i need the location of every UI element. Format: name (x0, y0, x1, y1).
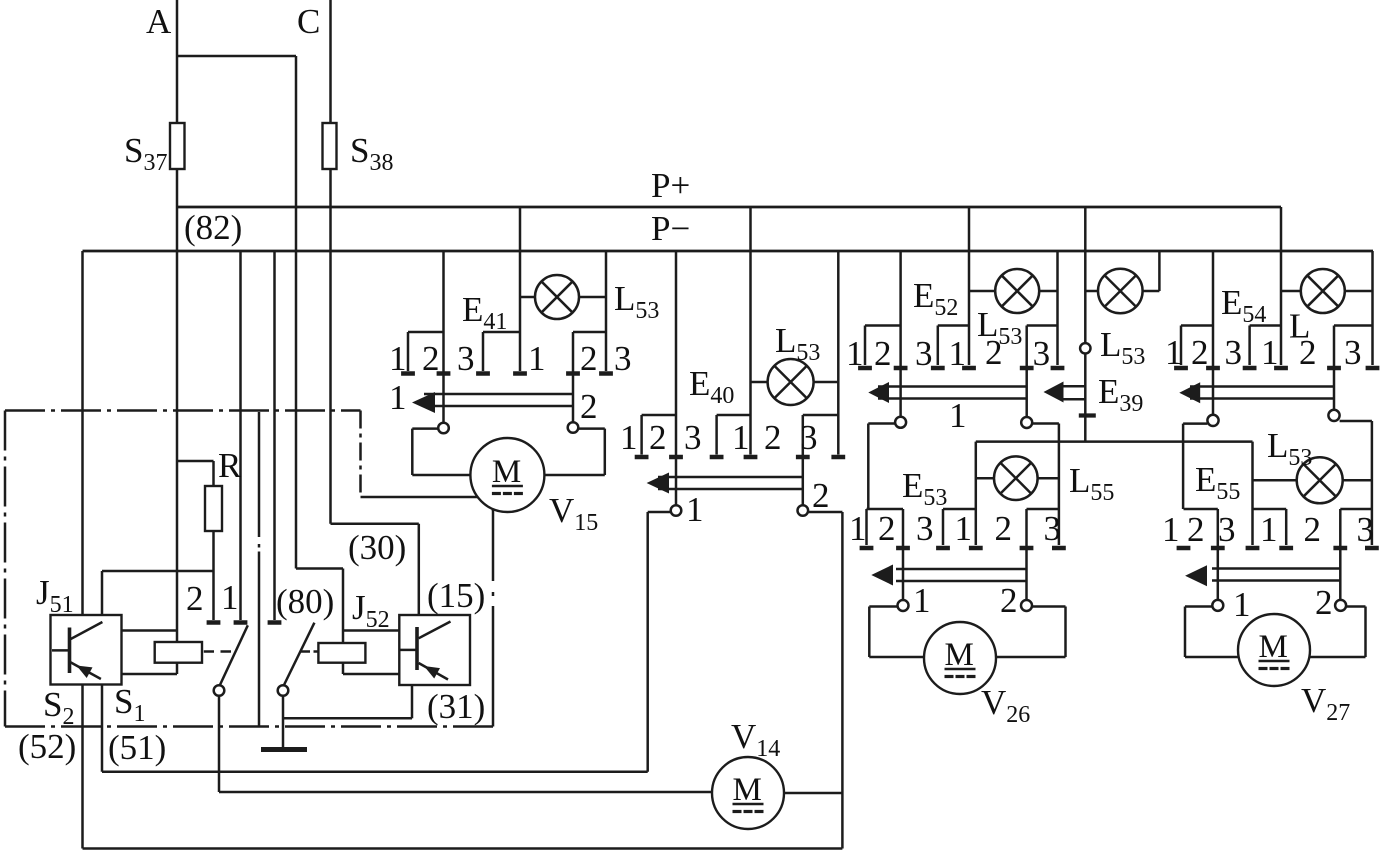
resistor R (205, 486, 222, 531)
lamp E41 right lead (579, 296, 606, 299)
svg-text:1: 1 (949, 334, 967, 373)
svg-text:(82): (82) (184, 208, 242, 247)
relay J51 coil feed wires (122, 629, 178, 632)
svg-text:2: 2 (1299, 333, 1317, 372)
svg-text:3: 3 (916, 509, 934, 548)
svg-text:2: 2 (580, 387, 598, 426)
svg-text:1: 1 (913, 581, 931, 620)
wire J52 emitter to ground wire (411, 685, 414, 718)
lamp L53 of E55 (1297, 457, 1343, 503)
E41 tick 1-right (513, 371, 527, 376)
E54 pivot 2 (1328, 410, 1339, 421)
enclosure boundary top dash-dot (5, 409, 361, 412)
wire E53 pivot1 to motor V26 (869, 605, 897, 608)
bottom rail (83, 847, 843, 850)
svg-text:A: A (146, 2, 172, 41)
svg-text:2: 2 (764, 418, 782, 457)
svg-text:3: 3 (915, 334, 933, 373)
svg-text:C: C (297, 2, 320, 41)
wire P- drop to E54 terminal 2-left (1212, 251, 1215, 415)
lamp L55 of E53 (994, 456, 1038, 500)
svg-text:3: 3 (1218, 510, 1236, 549)
wire E41 pivot2 to motor V15 (578, 427, 605, 430)
svg-text:2: 2 (995, 509, 1013, 548)
E53 lamp right lead (1038, 477, 1059, 480)
wire (80) contact drop from P- bus (273, 251, 276, 620)
fuse S38 (323, 123, 337, 169)
E40 lamp left lead (751, 381, 768, 384)
svg-text:2: 2 (1315, 583, 1333, 622)
wire J51 output to E40 pivot1 rail (101, 685, 104, 772)
E40 bracket 2-3 right (803, 414, 839, 417)
svg-text:2: 2 (186, 579, 204, 618)
wire junction rail down to E55 feed (1251, 442, 1254, 545)
wire E52 pivot1 down to E53 (868, 422, 895, 425)
relay J52 mechanical link dashes (300, 650, 310, 653)
svg-text:1: 1 (1162, 510, 1180, 549)
svg-text:2: 2 (1000, 581, 1018, 620)
E39 rocker bars (1063, 385, 1085, 388)
E41 tick 3-right (599, 371, 613, 376)
wire P- right end drop to E54 (1371, 251, 1374, 365)
E40 rocker arrow (647, 473, 669, 494)
svg-text:2: 2 (1304, 510, 1322, 549)
svg-text:1: 1 (1261, 333, 1279, 372)
enclosure boundary jog horizontal to motor V15 (361, 496, 479, 499)
switch S1 output wire down (218, 696, 221, 792)
wire P- drop to E52 terminal 2-left (899, 251, 902, 417)
wire E52 pivot2 down to junction rail (1032, 422, 1059, 425)
wire lamp L53 center to P- (1158, 251, 1161, 291)
lamp L53 of E52 (995, 269, 1039, 313)
wire E40 pivot1 down-left (648, 511, 671, 514)
wire P+ drop to E41 terminal 1 (519, 207, 522, 371)
transistor J52 emitter (419, 663, 448, 680)
relay J51 mechanical link dashes (204, 650, 214, 653)
E53 pivot 2 (1021, 600, 1032, 611)
E55 lamp left lead (1253, 479, 1297, 482)
wire E41 pivot1 to motor V15 (412, 427, 438, 430)
svg-text:1: 1 (1233, 585, 1251, 624)
svg-text:1: 1 (849, 509, 867, 548)
wire E54 pivot1 down to E55 (1183, 422, 1207, 425)
motor V15 bottom lead upper part (492, 510, 495, 512)
switch (80) pivot (278, 685, 289, 696)
transistor J52 base lead (401, 649, 417, 652)
svg-text:1: 1 (389, 339, 407, 378)
switch S1 blade (219, 625, 248, 687)
svg-text:(52): (52) (18, 727, 76, 766)
svg-text:2: 2 (985, 333, 1003, 372)
svg-text:2: 2 (874, 334, 892, 373)
svg-text:R: R (218, 446, 242, 485)
E54 bracket 2-3 right (1334, 324, 1373, 327)
motor V26 (924, 622, 996, 694)
ground symbol bar (261, 747, 307, 752)
E52 bracket 1-2 left (865, 324, 901, 327)
svg-text:1: 1 (955, 509, 973, 548)
E54 bracket 1-2 left (1181, 324, 1213, 327)
E41 bracket 2-3 right (573, 331, 606, 334)
svg-text:(80): (80) (276, 582, 334, 621)
svg-text:3: 3 (614, 339, 632, 378)
svg-text:(30): (30) (348, 528, 406, 567)
wire A feed vertical (176, 0, 179, 643)
svg-text:M: M (733, 772, 762, 808)
E54 lamp right lead (1345, 290, 1373, 293)
svg-text:(15): (15) (427, 576, 485, 615)
wire J51 collector to contact 2 tee (101, 571, 104, 615)
wire P+ drop center to E39 (1084, 207, 1087, 343)
relay J51 coil (155, 642, 202, 663)
wire P+ drop to E40 (749, 207, 752, 455)
wire S1 to motor V14 (219, 791, 712, 794)
E52 lamp left lead (969, 290, 995, 293)
wire (30) from C line to J52 (331, 523, 419, 526)
E55 lamp right lead (1343, 479, 1372, 482)
relay J52 coil top tee to box (343, 629, 399, 632)
transistor J51 emitter (70, 662, 101, 679)
svg-text:3: 3 (1044, 509, 1062, 548)
transistor J51 base lead (52, 649, 69, 652)
E40 pivot 1 (671, 505, 682, 516)
transistor J51 bar (68, 628, 72, 674)
svg-text:1: 1 (686, 490, 704, 529)
E55 wire bracket left to pivot (1217, 509, 1220, 600)
E39 node circle (1080, 343, 1090, 353)
motor V14 right lead (784, 792, 842, 795)
relay J51 box (51, 615, 122, 685)
enclosure boundary left dash-dot (4, 411, 7, 727)
wire R bottom lead to contact 2 (212, 531, 215, 620)
lamp L53 center left lead (1085, 290, 1098, 293)
svg-text:2: 2 (1191, 333, 1209, 372)
wire from jumper down to J52 coil (295, 56, 298, 569)
wire E53 pivot2 to motor V26 (1032, 605, 1066, 608)
transistor J52 collector (419, 622, 451, 639)
E41 bracket 1-2 left (408, 331, 444, 334)
wire (80) pivot to ground (282, 696, 285, 747)
svg-text:2: 2 (878, 509, 896, 548)
svg-text:3: 3 (800, 418, 818, 457)
transistor J51 emitter arrow (77, 666, 93, 679)
E53 ticks (860, 546, 874, 551)
switch S1 pivot (214, 685, 225, 696)
E55 pivot 1 (1212, 600, 1223, 611)
E55 bracket 3-1 center (1253, 508, 1287, 511)
E55 bracket 2-3 right (1340, 508, 1372, 511)
lamp L53 of E54 (1301, 269, 1345, 313)
E39 pivot mark (1079, 413, 1096, 417)
lamp L53 center right lead (1143, 290, 1160, 293)
wire E40 pivot2 down-right (808, 511, 842, 514)
transistor J52 bar (415, 627, 419, 670)
E52 pivot 1 (895, 417, 906, 428)
E52 rocker arrow (868, 382, 889, 403)
svg-text:3: 3 (684, 418, 702, 457)
E40 bracket 1-2 left (642, 414, 676, 417)
bus P- horizontal (83, 250, 1374, 253)
E53 lamp left lead (976, 477, 994, 480)
svg-text:1: 1 (949, 396, 967, 435)
lamp L53 center (1098, 269, 1143, 314)
svg-text:2: 2 (580, 339, 598, 378)
lamp E41 left lead (520, 296, 535, 299)
wire P+ right end drop to E54 (1280, 207, 1283, 365)
E53 rocker bars (896, 568, 1027, 571)
svg-text:1: 1 (1260, 510, 1278, 549)
switch (80) blade (283, 623, 314, 687)
E41 rocker arrow (412, 392, 435, 413)
E52 rocker bars (878, 385, 1027, 388)
svg-text:3: 3 (1225, 333, 1243, 372)
enclosure boundary jog vertical dash-dot (359, 411, 362, 496)
svg-text:M: M (1259, 629, 1288, 665)
motor V15 (470, 438, 544, 512)
E41 tick 2-right (566, 371, 580, 376)
svg-text:(31): (31) (427, 687, 485, 726)
E54 lamp left lead (1281, 290, 1301, 293)
wire P- drop to E40 terminal 2-left (675, 251, 678, 505)
svg-text:P+: P+ (651, 166, 690, 205)
E41 pivot 2 (568, 422, 579, 433)
contact (80) tick (268, 620, 282, 625)
wire P- drop to E52 terminal 3-right (1056, 251, 1059, 365)
transistor J51 collector (70, 622, 102, 639)
contact 1 tick (234, 620, 248, 625)
E52 ticks (858, 366, 872, 371)
E41 tick 3-left (476, 371, 490, 376)
E40 lamp right lead (814, 381, 839, 384)
relay J52 coil bottom wire to box (342, 663, 345, 674)
svg-text:1: 1 (1165, 333, 1183, 372)
junction rail horizontal (976, 440, 1253, 443)
E54 ticks (1174, 366, 1188, 371)
E40 rocker bars (658, 476, 803, 479)
wire junction rail down to E53 feed (975, 442, 978, 545)
svg-text:1: 1 (528, 339, 546, 378)
fuse S37 (170, 123, 185, 169)
svg-text:3: 3 (457, 339, 475, 378)
E39 rocker arrow (1044, 382, 1064, 403)
svg-text:1: 1 (846, 334, 864, 373)
E54 rocker bars (1190, 385, 1334, 388)
E40 bracket 3-1 center (717, 414, 751, 417)
E53 bracket 1-2 left (867, 508, 904, 511)
E41 tick 2-left (437, 371, 451, 376)
svg-text:(51): (51) (108, 728, 166, 767)
E53 wire bracket left to pivot (902, 509, 905, 600)
E40 pivot 2 (798, 505, 809, 516)
wire (82) bus left end down to J51 and bottom rail (81, 251, 84, 849)
contact 2 tick (207, 620, 221, 625)
bus P+ horizontal (177, 206, 1281, 209)
svg-text:2: 2 (422, 339, 440, 378)
enclosure right boundary / V15 lead dash-dot (492, 509, 495, 581)
E55 rocker arrow (1185, 565, 1207, 586)
wire E55 pivot1 to motor V27 (1185, 605, 1212, 608)
svg-text:3: 3 (1033, 334, 1051, 373)
E52 bracket 3-1 center (938, 324, 969, 327)
wire E54 pivot2 down to E55 right (1340, 420, 1372, 423)
E54 pivot 1 (1207, 415, 1218, 426)
enclosure boundary bottom dash-dot (5, 725, 493, 728)
relay J52 box (399, 615, 470, 685)
svg-text:P−: P− (651, 209, 690, 248)
E41 rocker bars (424, 393, 573, 396)
wire contact 1 drop from P- bus (239, 251, 242, 620)
motor V14 (712, 757, 784, 829)
svg-text:1: 1 (389, 378, 407, 417)
enclosure divider dash-dot vertical (258, 412, 261, 537)
E41 tick 1-left (401, 371, 415, 376)
E55 rocker bars (1212, 567, 1340, 570)
relay J52 coil (318, 643, 365, 663)
E55 bracket 1-2 left (1184, 508, 1218, 511)
E53 rocker arrow (871, 565, 893, 586)
lamp L53 of E41 (535, 275, 579, 319)
wire P- drop to E41 terminal 2 and pivot (442, 251, 445, 423)
wire E55 pivot2 to motor V27 (1346, 605, 1366, 608)
svg-text:3: 3 (1344, 333, 1362, 372)
svg-text:M: M (945, 637, 974, 673)
wire P+ drop to E52 (968, 207, 971, 365)
E55 pivot 2 (1335, 600, 1346, 611)
transistor J52 emitter arrow (424, 666, 440, 679)
svg-text:1: 1 (620, 418, 638, 457)
wire P- drop to E41 terminal 3 (605, 251, 608, 371)
E40 ticks left trio (635, 455, 649, 460)
E53 pivot 1 (898, 600, 909, 611)
E53 bracket 3-1 center (943, 508, 976, 511)
svg-text:M: M (492, 454, 521, 490)
E52 lamp right lead (1039, 290, 1057, 293)
wire A-C jumper (177, 55, 296, 58)
motor V27 (1238, 614, 1310, 686)
E52 bracket 2-3 right (1027, 324, 1058, 327)
lamp L53 of E40 (768, 359, 814, 405)
E53 bracket 2-3 right (1027, 508, 1059, 511)
E52 pivot 2 (1021, 417, 1032, 428)
svg-text:2: 2 (812, 476, 830, 515)
wire P- drop to E40 terminal 3-right (837, 251, 840, 455)
wire R feed tee from A line (177, 460, 214, 463)
E40 ticks right trio (744, 455, 758, 460)
svg-text:2: 2 (649, 418, 667, 457)
svg-text:3: 3 (1357, 510, 1375, 549)
E41 pivot 1 (438, 423, 449, 434)
svg-text:2: 2 (1187, 510, 1205, 549)
wire E39 node to junction rail (1084, 354, 1087, 442)
E41 bracket 3-1 center (483, 331, 520, 334)
E54 rocker arrow (1179, 382, 1200, 403)
svg-text:1: 1 (732, 418, 750, 457)
E55 ticks (1177, 546, 1191, 551)
wire C feed vertical (329, 0, 332, 524)
svg-text:1: 1 (221, 578, 239, 617)
E54 bracket 3-1 center (1250, 324, 1281, 327)
